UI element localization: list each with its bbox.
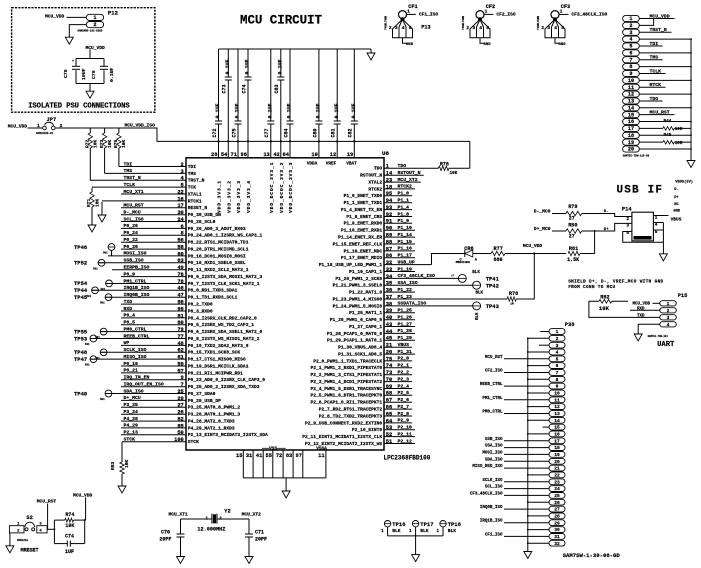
svg-text:59: 59 xyxy=(177,361,183,367)
svg-text:36: 36 xyxy=(386,288,392,294)
svg-text:0.1UF: 0.1UF xyxy=(334,103,340,118)
test point TP46 xyxy=(74,244,115,256)
svg-text:R74: R74 xyxy=(65,512,74,518)
U8 right pin 73 P2_2 xyxy=(311,370,413,379)
resistor R79 27 on D- xyxy=(552,204,632,221)
svg-text:P0_5_I2SRX_WS_TD2_CAP2_1: P0_5_I2SRX_WS_TD2_CAP2_1 xyxy=(188,322,254,328)
svg-text:P13: P13 xyxy=(421,25,430,31)
U8 right pin 68 P2_5 xyxy=(311,390,413,399)
wire JTAG pin 1 net MCU_VDD xyxy=(639,14,674,20)
MCU U8 LPC2368 box xyxy=(186,150,431,462)
U8 left pin 48 WP xyxy=(121,340,249,349)
svg-text:NC: NC xyxy=(674,203,679,207)
wire P38 pin 9 net REEB_CTRL xyxy=(480,383,549,387)
svg-text:CF3_48CLK_ISO: CF3_48CLK_ISO xyxy=(398,273,436,279)
svg-text:78: 78 xyxy=(177,279,183,285)
svg-text:P0_23_AD0_0_I2SRX_CLK_CAP3_0: P0_23_AD0_0_I2SRX_CLK_CAP3_0 xyxy=(188,377,265,383)
svg-text:P1_22_MAT1_0: P1_22_MAT1_0 xyxy=(349,290,382,296)
svg-text:16: 16 xyxy=(177,196,183,202)
svg-text:D-_MCU: D-_MCU xyxy=(124,210,141,216)
svg-text:D+: D+ xyxy=(674,196,679,200)
svg-text:C77: C77 xyxy=(264,128,270,137)
svg-text:2: 2 xyxy=(629,23,632,29)
resistor R82 10K xyxy=(589,295,634,318)
svg-text:97: 97 xyxy=(296,453,302,459)
svg-text:501: 501 xyxy=(87,295,92,298)
svg-text:13: 13 xyxy=(554,411,560,417)
U8 left pin 80 P0_5 xyxy=(121,320,254,329)
svg-text:3: 3 xyxy=(626,224,629,229)
svg-text:P0_19: P0_19 xyxy=(124,361,139,367)
svg-text:P1_17_ENET_MDIO: P1_17_ENET_MDIO xyxy=(341,255,383,261)
svg-text:P1_4: P1_4 xyxy=(398,204,410,210)
svg-text:90: 90 xyxy=(386,226,392,232)
U8 right pin 94 P1_1 xyxy=(344,198,413,207)
U8 right pin 91 P1_9 xyxy=(344,218,413,227)
svg-text:SCL_ISO: SCL_ISO xyxy=(124,216,144,222)
svg-text:TP17: TP17 xyxy=(420,521,433,528)
svg-text:91: 91 xyxy=(386,219,392,225)
svg-text:P0_29_USB_DP: P0_29_USB_DP xyxy=(188,398,221,404)
net MCU_RST label at S2 xyxy=(37,499,57,530)
svg-text:10K: 10K xyxy=(93,139,99,148)
svg-text:P1_14: P1_14 xyxy=(398,232,413,238)
svg-text:MRESET: MRESET xyxy=(21,548,39,554)
svg-text:P1_26_PWM1_6_CAP0_0: P1_26_PWM1_6_CAP0_0 xyxy=(330,317,383,323)
svg-text:15: 15 xyxy=(236,453,242,459)
U8 left pin 77 REEB_CTRL xyxy=(90,333,260,342)
svg-text:RTCK: RTCK xyxy=(650,82,662,88)
svg-text:R44: R44 xyxy=(664,119,672,124)
svg-text:T4SNL70NN: T4SNL70NN xyxy=(384,16,387,30)
svg-text:R76: R76 xyxy=(440,161,449,167)
svg-text:P1_15: P1_15 xyxy=(398,239,413,245)
svg-text:P2_8_TD2_TXD2_TRACEPKT3: P2_8_TD2_TXD2_TRACEPKT3 xyxy=(319,413,383,419)
svg-text:0.1UF: 0.1UF xyxy=(235,103,241,118)
svg-text:26: 26 xyxy=(554,500,560,506)
svg-text:P0_25_AD0_2_I2SRX_SDA_TXD3: P0_25_AD0_2_I2SRX_SDA_TXD3 xyxy=(188,384,260,390)
test point TP45 xyxy=(74,294,112,305)
svg-text:VDD_3V3_4: VDD_3V3_4 xyxy=(246,180,252,213)
U8 top power pins with numbers xyxy=(211,152,357,213)
capacitor C74 1UF xyxy=(65,534,74,555)
net MCU_VDD label at P12 xyxy=(45,14,65,20)
svg-text:P0_24: P0_24 xyxy=(124,230,139,236)
svg-text:TP52: TP52 xyxy=(74,260,87,267)
svg-text:19: 19 xyxy=(628,140,634,146)
capacitor C82 0.1UF decoupling xyxy=(348,49,358,157)
svg-text:P1_21_PWM1_3_SSEL0: P1_21_PWM1_3_SSEL0 xyxy=(333,283,383,289)
svg-text:REEB_CTRL: REEB_CTRL xyxy=(480,383,503,387)
svg-text:3: 3 xyxy=(472,25,475,31)
U8 right pin 1 TDO xyxy=(374,163,438,172)
svg-text:BLK: BLK xyxy=(448,528,457,534)
svg-text:56: 56 xyxy=(177,238,183,244)
svg-text:MISO_RED_ISO: MISO_RED_ISO xyxy=(472,465,503,469)
svg-text:PM0_CTRL: PM0_CTRL xyxy=(124,326,147,332)
svg-text:46: 46 xyxy=(177,286,183,292)
svg-text:ISOLATED PSU CONNECTIONS: ISOLATED PSU CONNECTIONS xyxy=(28,102,130,110)
svg-text:P1_27: P1_27 xyxy=(398,321,413,327)
svg-text:1: 1 xyxy=(37,123,40,129)
svg-text:IRQ1B_ISO: IRQ1B_ISO xyxy=(124,285,150,291)
wire P38 pin 11 net PM1_CTRL xyxy=(482,397,549,401)
svg-text:P15: P15 xyxy=(678,293,688,299)
svg-text:BLK: BLK xyxy=(476,312,480,320)
svg-text:C75: C75 xyxy=(231,128,237,137)
svg-text:65: 65 xyxy=(386,411,392,417)
svg-text:XTAL1: XTAL1 xyxy=(188,191,202,197)
wire P38 pin 13 net PM0_CTRL xyxy=(482,411,549,415)
svg-text:SAMSAMS-101-02GD: SAMSAMS-101-02GD xyxy=(77,29,102,32)
svg-text:82: 82 xyxy=(177,417,183,423)
svg-text:VBAT: VBAT xyxy=(346,162,357,167)
U8 right pin 34 CF3_48CLK_ISO xyxy=(335,273,458,282)
svg-text:MCU_VDD: MCU_VDD xyxy=(45,14,65,20)
svg-text:77: 77 xyxy=(177,334,183,340)
svg-text:P0_17_CTS1_MISO0_MISO: P0_17_CTS1_MISO0_MISO xyxy=(188,357,246,363)
svg-text:MCU_VDD: MCU_VDD xyxy=(8,123,28,129)
svg-text:SDA_ISO: SDA_ISO xyxy=(485,458,503,462)
svg-text:C80: C80 xyxy=(312,128,318,137)
capacitor C79 0.1UF xyxy=(91,66,115,82)
svg-text:35: 35 xyxy=(386,281,392,287)
svg-text:VBUS: VBUS xyxy=(398,342,410,348)
U8 left pin 24 SCL_ISO xyxy=(121,216,216,225)
svg-text:CF3_48CLK_ISO: CF3_48CLK_ISO xyxy=(470,492,503,496)
svg-text:P1_8_ENET_CRS: P1_8_ENET_CRS xyxy=(346,214,382,220)
svg-text:P2_2: P2_2 xyxy=(398,370,410,376)
svg-text:MOSI_ISO: MOSI_ISO xyxy=(124,251,147,257)
svg-text:P2_8: P2_8 xyxy=(398,411,410,417)
net D+_MCU label xyxy=(534,226,551,232)
svg-text:TRST_N: TRST_N xyxy=(124,175,141,181)
connector P12 xyxy=(77,10,118,33)
svg-text:MCU_RST: MCU_RST xyxy=(650,110,670,116)
svg-text:P1_30_VBUS_AD0_4: P1_30_VBUS_AD0_4 xyxy=(338,345,382,351)
svg-text:RTCK2: RTCK2 xyxy=(398,184,413,190)
section title USB IF xyxy=(617,185,663,197)
svg-text:P1_0: P1_0 xyxy=(398,191,410,197)
svg-text:92: 92 xyxy=(386,212,392,218)
svg-text:R75: R75 xyxy=(113,139,119,148)
net MCU_VDD label on R77 wire xyxy=(523,243,543,254)
svg-text:16: 16 xyxy=(628,119,634,125)
svg-text:P0_7_I2STX_CLK_SCK1_MAT2_1: P0_7_I2STX_CLK_SCK1_MAT2_1 xyxy=(188,281,260,287)
capacitor C84 0.1UF decoupling xyxy=(283,49,293,157)
svg-text:0.1UF: 0.1UF xyxy=(277,59,283,74)
svg-text:P4_28: P4_28 xyxy=(124,416,139,422)
svg-text:18: 18 xyxy=(554,445,560,451)
svg-text:VBUS: VBUS xyxy=(671,217,682,223)
ground bus above decoupling caps xyxy=(219,48,372,50)
svg-text:16: 16 xyxy=(554,432,560,438)
U8 left pin 99 RXD xyxy=(121,306,213,315)
svg-text:19: 19 xyxy=(554,452,560,458)
wire JTAG pin 5 net TDI xyxy=(639,41,662,47)
svg-text:SAM1S1KD-01: SAM1S1KD-01 xyxy=(36,132,54,135)
svg-text:C84: C84 xyxy=(283,128,289,137)
wire P38 pin 29 net IRQ1B_ISO xyxy=(480,520,549,524)
svg-text:C73: C73 xyxy=(222,84,228,93)
svg-text:501: 501 xyxy=(100,302,105,305)
svg-text:P1_29: P1_29 xyxy=(398,335,413,341)
svg-text:GND: GND xyxy=(673,209,680,213)
svg-text:BLK: BLK xyxy=(420,528,429,534)
svg-text:39: 39 xyxy=(386,308,392,314)
crystal Y2 12.000MHZ xyxy=(181,508,250,532)
svg-text:TP40: TP40 xyxy=(74,390,87,397)
svg-text:P1_23: P1_23 xyxy=(398,294,413,300)
svg-text:2: 2 xyxy=(541,25,544,31)
svg-text:6: 6 xyxy=(181,224,184,230)
svg-text:1: 1 xyxy=(667,301,670,307)
svg-text:VDD_3V3_1: VDD_3V3_1 xyxy=(217,180,223,213)
P38 ground bus vertical xyxy=(527,338,529,551)
U8 left pin 79 PM0_CTRL xyxy=(100,326,262,335)
svg-text:P2_11: P2_11 xyxy=(398,431,413,437)
svg-text:41: 41 xyxy=(256,453,262,459)
ground below P15 xyxy=(634,334,642,341)
USB pinout legend text xyxy=(673,179,693,213)
wires P38 ground stub pins xyxy=(527,332,549,545)
svg-text:REEB_CTRL: REEB_CTRL xyxy=(124,333,150,339)
svg-text:D-: D- xyxy=(674,188,678,192)
U8 right pin 45 P1_29 xyxy=(327,335,415,344)
svg-text:48: 48 xyxy=(177,341,183,347)
svg-text:TDO: TDO xyxy=(650,96,659,102)
svg-text:0.1UF: 0.1UF xyxy=(316,103,322,118)
svg-text:VDD_DCDC_3V3_2: VDD_DCDC_3V3_2 xyxy=(279,162,285,213)
svg-text:P1_16_ENET_MDC: P1_16_ENET_MDC xyxy=(344,248,383,254)
svg-text:42: 42 xyxy=(273,152,279,158)
U8 right pin 88 P1_15 xyxy=(333,239,415,248)
svg-text:29: 29 xyxy=(554,520,560,526)
U8 right pin 92 P1_8 xyxy=(346,211,412,220)
ground below P12 xyxy=(65,37,73,44)
svg-text:P2_4: P2_4 xyxy=(398,383,410,389)
svg-text:P0_26_AD0_3_AOUT_RX03: P0_26_AD0_3_AOUT_RX03 xyxy=(188,226,246,232)
svg-text:P2_1: P2_1 xyxy=(398,363,410,369)
svg-text:SCL_ISO: SCL_ISO xyxy=(485,486,503,490)
svg-text:P1_26: P1_26 xyxy=(398,315,413,321)
wire P14 pin1 to VBUS label xyxy=(653,216,681,223)
U8 right pin 67 P2_6 xyxy=(311,397,413,406)
resistor R44 10K on JTAG pin 17 xyxy=(639,119,691,132)
svg-text:5: 5 xyxy=(629,44,632,50)
wire JTAG even pins ground bracket xyxy=(639,38,692,160)
svg-text:4: 4 xyxy=(556,350,559,356)
U8 right pin 70 P2_3 xyxy=(311,376,413,385)
svg-text:TRST_N: TRST_N xyxy=(650,27,667,33)
svg-text:C70: C70 xyxy=(161,530,170,536)
svg-text:13: 13 xyxy=(628,99,634,105)
wire JTAG pin 7 net TMS xyxy=(639,55,662,61)
svg-text:0.1UF: 0.1UF xyxy=(225,59,231,74)
svg-text:MCU_RST: MCU_RST xyxy=(37,499,57,505)
svg-text:MCU_VDD: MCU_VDD xyxy=(523,243,543,249)
svg-text:14: 14 xyxy=(628,105,634,111)
resistor R74 10K xyxy=(65,512,75,529)
svg-text:MCU_VDD: MCU_VDD xyxy=(633,302,651,306)
svg-text:C74: C74 xyxy=(241,84,247,93)
svg-text:IRQ_OUT_EN_ISO: IRQ_OUT_EN_ISO xyxy=(124,382,164,388)
wire JP7 to MCU_VDD_ISO bus xyxy=(55,128,470,141)
svg-text:15: 15 xyxy=(628,112,634,118)
U8 left pin 57 P0_21 xyxy=(121,368,243,377)
svg-text:P4_29_MAT2_1_RXD3: P4_29_MAT2_1_RXD3 xyxy=(188,425,235,431)
svg-text:P1_31_SCK1_AD0_5: P1_31_SCK1_AD0_5 xyxy=(338,352,382,358)
wire JTAG pin 11 net RTCK xyxy=(639,82,665,88)
wire S2 to R74 C74 network xyxy=(47,519,86,544)
svg-text:VDDA: VDDA xyxy=(307,162,318,167)
svg-text:P1_25: P1_25 xyxy=(398,308,413,314)
svg-text:88: 88 xyxy=(386,239,392,245)
svg-text:4: 4 xyxy=(667,322,670,328)
svg-text:31: 31 xyxy=(554,534,560,540)
svg-text:99: 99 xyxy=(177,306,183,312)
U8 right pin 86 P1_17 xyxy=(341,253,415,262)
svg-text:18: 18 xyxy=(628,133,634,139)
wire P12 pin 2 to ground xyxy=(69,25,86,38)
U8 right pin 64 P2_9 xyxy=(305,418,412,427)
capacitor C75 0.1UF decoupling xyxy=(231,49,241,157)
svg-text:D+_MCU: D+_MCU xyxy=(124,395,141,401)
svg-text:P1_19: P1_19 xyxy=(398,266,413,272)
svg-text:CF2_ISO: CF2_ISO xyxy=(485,370,503,374)
test point TP43 xyxy=(473,302,500,320)
svg-text:UART: UART xyxy=(657,341,675,349)
resistor R72 10K pull-up xyxy=(85,128,99,181)
svg-text:85: 85 xyxy=(177,423,183,429)
svg-text:53: 53 xyxy=(386,425,392,431)
test point TP41 xyxy=(451,271,499,282)
svg-text:83: 83 xyxy=(286,453,292,459)
wire P38 pin 17 net SSB_ISO xyxy=(485,438,549,442)
svg-text:U8: U8 xyxy=(382,150,389,157)
wire JTAG pin 2 up to pin 1 MCU_VDD xyxy=(639,19,653,26)
svg-text:50: 50 xyxy=(177,430,183,436)
svg-text:MISO_ISO: MISO_ISO xyxy=(124,354,147,360)
svg-text:8: 8 xyxy=(181,231,184,237)
svg-text:P14: P14 xyxy=(622,206,632,212)
svg-text:BLK: BLK xyxy=(476,292,484,296)
svg-text:11: 11 xyxy=(554,397,560,403)
U8 left pin 16 RTCK1 xyxy=(102,196,202,204)
svg-text:75: 75 xyxy=(386,356,392,362)
svg-text:LPC2368FBD100: LPC2368FBD100 xyxy=(384,455,431,462)
svg-text:TDI: TDI xyxy=(650,41,659,47)
svg-text:5: 5 xyxy=(556,356,559,362)
test point TP40 xyxy=(74,390,112,401)
svg-text:9: 9 xyxy=(556,384,559,390)
test point TP16 BLK xyxy=(381,521,405,536)
ground below R83 xyxy=(118,486,126,493)
svg-text:P1_10_ENET_RXD1: P1_10_ENET_RXD1 xyxy=(341,228,383,234)
test point TP48 xyxy=(74,349,107,360)
svg-text:3: 3 xyxy=(547,25,550,31)
svg-text:6: 6 xyxy=(556,363,559,369)
svg-text:TP18: TP18 xyxy=(448,521,462,528)
svg-text:10K: 10K xyxy=(675,142,683,146)
svg-text:P0_15_TXD1_SCK0_SCK: P0_15_TXD1_SCK0_SCK xyxy=(188,350,241,356)
svg-text:TP16: TP16 xyxy=(392,521,405,528)
svg-text:C71: C71 xyxy=(255,530,264,536)
U8 left pin 25 SDA_ISO xyxy=(105,388,216,397)
svg-text:95: 95 xyxy=(386,191,392,197)
U8 right pin 14 RSTOUT_N xyxy=(360,170,424,179)
svg-text:SCLK_ISO: SCLK_ISO xyxy=(124,347,147,353)
svg-text:89: 89 xyxy=(386,233,392,239)
U8 right pin 39 P1_25 xyxy=(349,308,415,317)
wire S2 to ground xyxy=(9,533,11,546)
svg-text:3: 3 xyxy=(395,25,398,31)
resistor R71 10K to ground on TCLK xyxy=(86,188,100,225)
U8 left pin 63 SSB_ISO xyxy=(98,258,246,267)
svg-text:T4SNL70NN: T4SNL70NN xyxy=(462,16,465,30)
svg-text:P2_5_PWM1_6_DTR1_TRACEPKT0: P2_5_PWM1_6_DTR1_TRACEPKT0 xyxy=(311,393,383,399)
svg-text:4: 4 xyxy=(554,25,557,31)
svg-text:P1_29_PCAP1_1_MAT0_1: P1_29_PCAP1_1_MAT0_1 xyxy=(327,338,382,344)
ground below R71 xyxy=(88,225,96,232)
U8 left pin 9 IRQ_IN_EN xyxy=(121,375,265,384)
wire P38 pin 25 net CF3_48CLK_ISO xyxy=(470,492,549,496)
svg-text:P0_5: P0_5 xyxy=(124,320,136,326)
svg-text:P0_18_DC01_MOSI0_MOSI: P0_18_DC01_MOSI0_MOSI xyxy=(188,253,246,259)
U8 right pin 43 P1_27 xyxy=(349,321,415,330)
svg-text:79: 79 xyxy=(177,327,183,333)
svg-text:MCU_RST: MCU_RST xyxy=(124,203,144,209)
svg-text:8: 8 xyxy=(556,377,559,383)
wire MCU_VDD to JP7 xyxy=(28,127,43,129)
svg-text:TDI: TDI xyxy=(124,161,133,167)
U8 right pin 95 P1_0 xyxy=(344,191,413,200)
svg-text:0.1UF: 0.1UF xyxy=(287,103,293,118)
svg-text:P0_16_RXD1_SSEL0_SSEL: P0_16_RXD1_SSEL0_SSEL xyxy=(188,260,246,266)
svg-text:VREF: VREF xyxy=(326,162,337,167)
svg-text:TP53: TP53 xyxy=(74,335,88,342)
svg-text:71: 71 xyxy=(231,152,237,158)
svg-text:P3_24: P3_24 xyxy=(124,409,139,415)
capacitor C81 0.1UF decoupling xyxy=(331,49,341,157)
svg-text:VSSA: VSSA xyxy=(316,445,327,451)
svg-text:10K: 10K xyxy=(107,139,113,148)
svg-text:0.1UF: 0.1UF xyxy=(109,67,115,82)
svg-text:2: 2 xyxy=(626,217,629,222)
U8 left pin 8 P0_24 xyxy=(121,230,262,239)
wire P38 pin 7 net CF2_ISO xyxy=(485,370,549,374)
svg-text:IRQ0B_ISO: IRQ0B_ISO xyxy=(124,292,150,298)
svg-text:P1_14_ENET_RX_ER: P1_14_ENET_RX_ER xyxy=(338,235,382,241)
svg-text:P2_7_RD2_RTS1_TRACEPKT2: P2_7_RD2_RTS1_TRACEPKT2 xyxy=(319,407,383,413)
resistor R76 10K pull-up on TDO xyxy=(438,141,469,175)
svg-text:62: 62 xyxy=(177,348,183,354)
svg-text:C79: C79 xyxy=(91,70,97,79)
svg-text:26: 26 xyxy=(177,410,183,416)
svg-text:P4_29: P4_29 xyxy=(124,423,139,429)
wire P38 pin 21 net MISO_RED_ISO xyxy=(472,465,549,469)
svg-text:SSB_ISO: SSB_ISO xyxy=(485,438,503,442)
svg-text:TMS: TMS xyxy=(124,168,133,174)
svg-text:P1_0_ENET_TXD0: P1_0_ENET_TXD0 xyxy=(344,193,383,199)
filter CF2 with connector xyxy=(462,4,516,47)
U8 left pin 98 TXD xyxy=(121,299,213,308)
net D-_MCU label xyxy=(534,208,551,214)
svg-text:P3_25_MAT0_0_PWM1_2: P3_25_MAT0_0_PWM1_2 xyxy=(188,405,241,411)
svg-text:1M: 1M xyxy=(510,303,514,306)
svg-text:3: 3 xyxy=(629,30,632,36)
svg-text:12: 12 xyxy=(628,92,634,98)
